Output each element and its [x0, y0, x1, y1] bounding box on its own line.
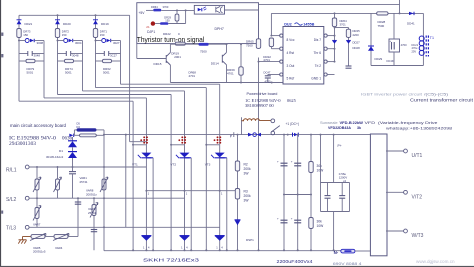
resistor DR71 150	[93, 29, 97, 38]
capacitor DC24	[346, 65, 352, 67]
svg-text:SKKH 72/16Ex3: SKKH 72/16Ex3	[143, 258, 200, 263]
svg-text:DD14: DD14	[211, 62, 219, 66]
wire drop x125.8	[125, 135, 127, 228]
svg-text:3027: 3027	[113, 41, 120, 45]
diode DD19	[93, 19, 98, 21]
pin 8 Vcc	[280, 34, 283, 37]
wire channel left leg DD20	[57, 15, 59, 94]
inverter module block	[370, 134, 387, 256]
svg-text:DPH7: DPH7	[215, 27, 224, 31]
svg-text:W/T3: W/T3	[412, 233, 424, 239]
wire accessory rail	[103, 135, 105, 251]
resistor DR64 3700	[146, 9, 153, 11]
resistor DR28 7500	[377, 12, 388, 15]
pulse transformer T-DD20	[57, 40, 59, 42]
zener DSP1	[235, 219, 241, 221]
wire W4 ch2 to gate VT2	[83, 90, 185, 92]
svg-text:4 Rst: 4 Rst	[287, 51, 295, 55]
svg-text:21: 21	[146, 25, 150, 29]
ground	[22, 237, 24, 240]
svg-text:DR64: DR64	[151, 5, 158, 9]
svg-text:+: +	[291, 160, 293, 164]
svg-text:DC21: DC21	[412, 43, 419, 47]
wire channel right leg DD19	[120, 41, 122, 85]
wire N- bus	[104, 250, 341, 252]
fuse F1 charging	[248, 133, 252, 137]
resistor DR29 150	[155, 23, 160, 25]
wire pin2	[327, 61, 334, 63]
svg-text:DD28: DD28	[353, 46, 361, 50]
svg-text:150: 150	[100, 33, 105, 37]
diode D1 pair	[72, 137, 74, 141]
svg-text:VFD (Variable-frequency Drive: VFD (Variable-frequency Drive	[365, 120, 439, 125]
svg-text:0625: 0625	[287, 98, 297, 103]
wire W6 ch3 to gate VT3	[121, 83, 220, 85]
label cut-off left marks	[1, 33, 3, 36]
resistor DR45 2200	[335, 27, 349, 29]
wire pin7 to divider	[327, 35, 334, 37]
svg-text:150: 150	[23, 33, 28, 37]
svg-text:VT2: VT2	[170, 162, 176, 166]
wire cap mid rail	[284, 194, 311, 196]
svg-text:R2: R2	[244, 163, 248, 167]
svg-text:U/T1: U/T1	[412, 153, 423, 159]
svg-text:3810089907 00: 3810089907 00	[245, 103, 274, 108]
terminal U/T1	[386, 150, 404, 152]
svg-text:+: +	[291, 217, 293, 221]
svg-text:7500: 7500	[246, 44, 253, 48]
svg-text:30k: 30k	[317, 164, 323, 168]
pin 3 Out	[280, 60, 283, 63]
wire P+ bus	[104, 134, 370, 136]
svg-text:200k: 200k	[244, 167, 252, 171]
wire transformer rung	[58, 40, 64, 42]
pin 4 Rst	[280, 47, 283, 50]
svg-text:25741: 25741	[88, 211, 96, 215]
svg-text:150: 150	[62, 33, 67, 37]
wire pin3 from rail	[259, 61, 280, 63]
wire top supply bus	[19, 14, 130, 16]
svg-text:22kW: 22kW	[353, 120, 364, 125]
pin Dis 7	[324, 34, 327, 37]
wire S bus	[29, 197, 184, 199]
wire vcc bus	[271, 12, 423, 14]
wire channel left leg DD21	[18, 15, 20, 101]
svg-text:2200: 2200	[353, 33, 360, 37]
node gate pins VT2	[181, 136, 183, 138]
wire opto output	[225, 9, 259, 11]
svg-text:+1 (DC+): +1 (DC+)	[286, 122, 300, 126]
svg-text:3008: 3008	[37, 41, 44, 45]
svg-text:30145-16Ax2: 30145-16Ax2	[46, 155, 64, 159]
wire pin6	[327, 48, 334, 50]
svg-text:x2: x2	[343, 179, 346, 183]
svg-text:P+: P+	[338, 144, 342, 148]
transistor DD15	[166, 52, 170, 65]
wire long rail x258	[258, 58, 260, 251]
svg-text:V/T2: V/T2	[412, 194, 423, 200]
resistor R2 200k 3W	[237, 135, 239, 251]
svg-text:D5: D5	[77, 122, 81, 126]
svg-text:VAR7: VAR7	[33, 222, 41, 226]
transistor DD14	[222, 52, 226, 64]
wire emitter rail	[170, 82, 283, 84]
varistor VAR1	[36, 167, 38, 227]
svg-text:7500: 7500	[378, 24, 385, 28]
svg-text:Dis 7: Dis 7	[314, 38, 321, 42]
wire rail C2	[185, 157, 192, 159]
svg-text:2001: 2001	[174, 55, 181, 59]
wire rail C3	[220, 157, 227, 159]
svg-text:200k: 200k	[244, 194, 252, 198]
svg-text:10W: 10W	[317, 224, 325, 228]
svg-text:DC47: DC47	[264, 71, 271, 75]
wire rail drop	[399, 0, 401, 13]
svg-text:Thr 6: Thr 6	[314, 51, 322, 55]
svg-text:VFD22DB43A: VFD22DB43A	[328, 126, 351, 130]
resistor DR79 5001	[19, 60, 26, 62]
resistor DR72 150	[55, 29, 59, 38]
svg-text:IGBT inverter power circuit: IGBT inverter power circuit	[361, 93, 422, 97]
svg-text:7500: 7500	[200, 50, 207, 54]
wire transformer rung	[19, 40, 25, 42]
capacitor 3C27	[96, 53, 105, 55]
wire channel right leg DD20	[82, 41, 84, 91]
wire transformer rung	[96, 40, 102, 42]
diode DD28	[346, 39, 351, 41]
node gate pins VT3	[217, 136, 219, 138]
svg-text:3k: 3k	[357, 126, 361, 130]
svg-text:VT3: VT3	[205, 162, 211, 166]
wire rail C1	[146, 157, 153, 159]
svg-text:DD21: DD21	[25, 22, 33, 26]
svg-text:4701: 4701	[227, 72, 234, 76]
capacitor C-SL	[77, 198, 79, 227]
varistor VAR7	[35, 208, 39, 219]
svg-text:150: 150	[165, 19, 170, 23]
wire psu right leg	[422, 13, 424, 65]
wire +V rail top	[259, 4, 400, 6]
svg-text:200911x: 200911x	[86, 193, 97, 197]
svg-text:5001: 5001	[103, 70, 110, 74]
svg-text:DD19: DD19	[101, 22, 109, 26]
svg-text:3004: 3004	[75, 41, 82, 45]
svg-text:+: +	[277, 160, 279, 164]
svg-text:DD41: DD41	[407, 22, 415, 26]
diode input mark	[69, 134, 73, 137]
svg-text:Tri 2: Tri 2	[315, 64, 321, 68]
svg-text:2943001303: 2943001303	[9, 141, 36, 147]
optocoupler DPH7	[194, 5, 224, 14]
capacitor bank C1a	[283, 135, 285, 251]
capacitor 3048	[58, 53, 67, 55]
capacitor bank C1b	[297, 135, 299, 251]
resistor DR22 4701	[269, 38, 273, 47]
varistor VAR3	[102, 179, 106, 190]
svg-text:N-: N-	[334, 250, 339, 255]
resistor DR74 5001	[58, 60, 65, 62]
resistor 30k 10W upper	[310, 135, 312, 251]
svg-text:www.dgjsw.com.cn: www.dgjsw.com.cn	[416, 259, 455, 264]
pin GND 1	[324, 73, 327, 76]
svg-text:VFD-B: VFD-B	[340, 120, 352, 125]
resistor on box edge	[175, 42, 185, 45]
resistor 30k 10W lower	[309, 218, 313, 229]
resistor DR62 5001	[96, 60, 103, 62]
svg-text:3048: 3048	[34, 54, 41, 58]
diode DD41	[409, 12, 414, 15]
pulse transformer T-DD21	[18, 40, 20, 42]
wire gate bend VT2	[171, 144, 184, 146]
pin Tri 2	[324, 60, 327, 63]
svg-text:DD20: DD20	[63, 22, 71, 26]
resistor DR65 7500	[256, 39, 260, 49]
diode DD20	[55, 19, 60, 21]
svg-text:2200uF400Vx4: 2200uF400Vx4	[277, 259, 314, 264]
svg-text:Thyristor turn-on signal: Thyristor turn-on signal	[137, 35, 205, 44]
resistor R3 200k 3W	[235, 189, 239, 200]
svg-text:DC30: DC30	[387, 59, 395, 63]
svg-text:+5V: +5V	[139, 11, 146, 15]
svg-text:4700: 4700	[401, 43, 407, 47]
wire channel left leg DD19	[95, 15, 97, 87]
capacitor DC30 470u box	[389, 39, 400, 52]
resistor DR63	[175, 14, 179, 21]
thyristor VT1	[141, 153, 151, 158]
svg-text:470u: 470u	[412, 46, 418, 50]
varistor VAR4	[54, 235, 68, 239]
svg-text:4700: 4700	[265, 79, 271, 83]
varistor VAR6	[57, 167, 59, 198]
svg-text:8 Vcc: 8 Vcc	[287, 38, 295, 42]
svg-text:DSP1: DSP1	[246, 238, 254, 242]
resistor DR73 150	[17, 29, 21, 38]
capacitor C-TL	[91, 229, 97, 231]
svg-text:3701: 3701	[340, 23, 347, 27]
wire gate bend VT3	[206, 144, 219, 146]
diode lower VT1	[141, 235, 151, 237]
svg-text:Current transformer circuit: Current transformer circuit	[410, 97, 474, 102]
wire cathode link	[146, 190, 237, 192]
svg-text:5001: 5001	[65, 70, 72, 74]
varistor VAR2	[93, 198, 95, 250]
svg-text:3700: 3700	[163, 5, 169, 9]
svg-text:200911x5: 200911x5	[33, 250, 46, 254]
wire psu bottom	[371, 65, 423, 67]
wire W3 ch2 to rail A2	[58, 94, 172, 96]
svg-text:R/L1: R/L1	[6, 168, 17, 174]
wire channel right leg DD21	[43, 41, 45, 98]
diode DD21	[17, 19, 22, 21]
svg-text:690V 8088 4: 690V 8088 4	[333, 262, 362, 266]
node P tick	[233, 132, 235, 137]
annotation box thyristor signal	[137, 3, 259, 44]
capacitor snubber array	[320, 135, 322, 183]
wire W1 gate loop ch1 to rail A1	[19, 100, 133, 102]
thyristor VT2	[180, 153, 190, 158]
wire R bus	[29, 166, 146, 168]
wire psu left leg	[370, 13, 372, 65]
relay K060 bypass	[74, 129, 76, 131]
resistor DR30 7500	[170, 43, 198, 45]
wire pin1 gnd	[327, 74, 334, 76]
svg-text:DD27: DD27	[353, 41, 361, 45]
svg-text:30k: 30k	[317, 220, 323, 224]
wire W2 ch1 to gate VT1	[44, 97, 146, 99]
diode lower VT3	[215, 235, 225, 237]
varistor VAR5	[31, 235, 45, 239]
svg-text:5 Ref: 5 Ref	[287, 77, 295, 81]
svg-text:DD29: DD29	[375, 57, 383, 61]
diode DD27	[332, 39, 337, 41]
svg-text:DD15: DD15	[154, 62, 162, 66]
pin 5 Ref	[280, 73, 283, 76]
transformer T1	[419, 36, 424, 41]
svg-text:GND 1: GND 1	[311, 77, 321, 81]
pulse transformer T-DD19	[95, 40, 97, 42]
resistor DR69 4701	[240, 44, 242, 67]
svg-text:S/L2: S/L2	[6, 197, 17, 203]
zener DD29	[368, 45, 374, 47]
svg-text:DJP1: DJP1	[147, 30, 155, 34]
wire W5 ch3 to rail A3	[96, 87, 207, 89]
svg-text:+: +	[277, 217, 279, 221]
svg-text:VT1: VT1	[132, 162, 138, 166]
capacitor 3048	[19, 53, 28, 55]
svg-text:3048: 3048	[72, 54, 79, 58]
svg-text:Power/drive board: Power/drive board	[247, 92, 278, 96]
wire T bus	[29, 226, 220, 228]
svg-text:1455B: 1455B	[303, 23, 314, 27]
scan edge left	[0, 0, 1, 267]
wire base rung	[137, 58, 166, 60]
svg-text:T/L3: T/L3	[6, 226, 16, 232]
terminal W/T3	[386, 230, 404, 232]
svg-text:4701: 4701	[189, 74, 196, 78]
svg-text:/(C5)-(C5): /(C5)-(C5)	[424, 93, 448, 97]
resistor DR64 3701 divider	[334, 13, 336, 61]
capacitor under D1	[69, 171, 76, 173]
op-amp timer U2 1455B	[283, 27, 324, 85]
relay contact	[260, 120, 271, 122]
thyristor VT3	[215, 153, 225, 158]
svg-text:3C27: 3C27	[110, 54, 117, 58]
relay coil K1	[241, 117, 243, 134]
svg-text:D1: D1	[59, 149, 63, 153]
svg-text:25741: 25741	[80, 180, 88, 184]
svg-text:25V: 25V	[412, 50, 417, 54]
wire 555 left	[270, 13, 272, 35]
wire opto return	[185, 10, 187, 23]
svg-text:Sunweale: Sunweale	[320, 120, 338, 125]
svg-text:5001: 5001	[27, 70, 34, 74]
node gate pins VT1	[143, 136, 145, 138]
pin Thr 6	[324, 47, 327, 50]
svg-text:main circuit accessory board: main circuit accessory board	[10, 123, 67, 128]
svg-text:VAR4: VAR4	[55, 246, 63, 250]
wire outer box edge down to bridge	[129, 15, 131, 141]
wire ground to varistors	[23, 236, 32, 238]
resistor charging	[80, 134, 97, 137]
svg-text:T1: T1	[430, 36, 434, 40]
terminal V/T2	[386, 191, 404, 193]
svg-text:whatsapp:+86-13689242098: whatsapp:+86-13689242098	[386, 126, 453, 131]
svg-text:DU2: DU2	[284, 23, 292, 27]
scan edge bottom	[0, 266, 474, 267]
svg-text:R3: R3	[244, 190, 248, 194]
svg-text:3 Out: 3 Out	[287, 64, 295, 68]
diode lower VT2	[180, 235, 190, 237]
wire gate bend VT1	[133, 144, 146, 146]
wire varistor row	[45, 236, 54, 238]
